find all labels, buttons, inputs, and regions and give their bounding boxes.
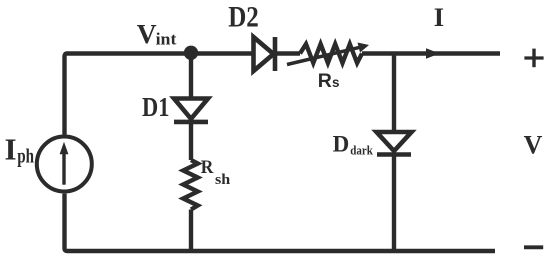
svg-text:V: V: [524, 131, 543, 160]
svg-text:sh: sh: [215, 172, 231, 188]
svg-text:int: int: [156, 30, 177, 49]
svg-text:V: V: [137, 18, 157, 49]
svg-text:dark: dark: [350, 144, 373, 158]
svg-text:I: I: [5, 132, 17, 167]
svg-text:D: D: [333, 132, 350, 157]
svg-text:R: R: [318, 70, 332, 92]
svg-text:D1: D1: [142, 92, 169, 122]
svg-text:I: I: [434, 2, 444, 32]
svg-text:s: s: [332, 75, 340, 90]
svg-text:ph: ph: [17, 146, 34, 168]
svg-text:R: R: [201, 158, 214, 178]
svg-text:D2: D2: [228, 1, 259, 34]
